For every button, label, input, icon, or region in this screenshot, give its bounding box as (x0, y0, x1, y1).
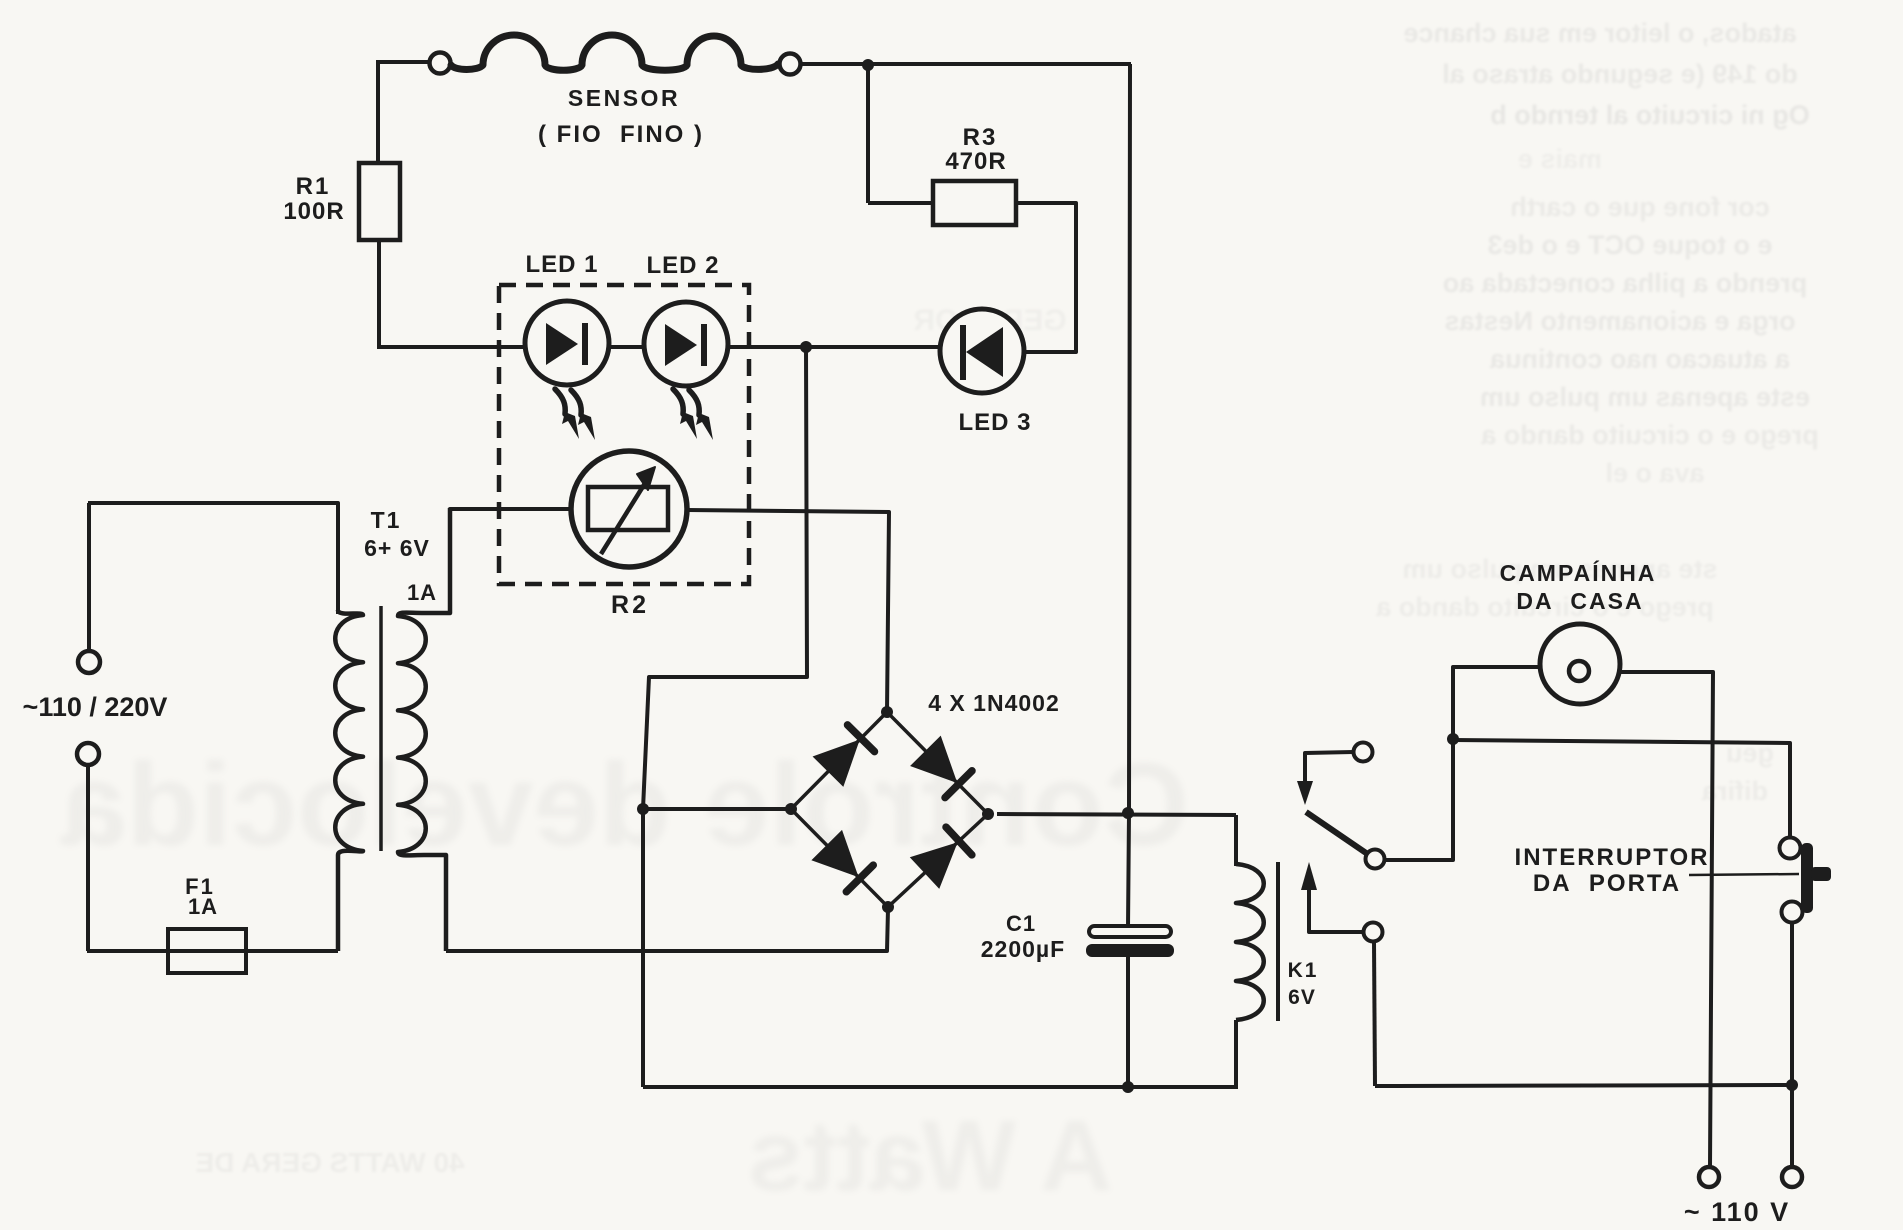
svg-text:LED 2: LED 2 (646, 252, 719, 279)
wire: left vertical down to bottom rail (641, 809, 645, 1087)
bell inner circle (1569, 661, 1589, 681)
T1 secondary winding (398, 508, 450, 951)
mains terminal top (78, 651, 100, 673)
dashed box around LED1 LED2 R2 (499, 285, 749, 584)
capacitor C1 bottom plate (1086, 944, 1174, 957)
svg-text:SENSOR: SENSOR (568, 85, 680, 111)
wire: NC contact lead (1305, 752, 1353, 783)
svg-text:prendo a pilha conectada a: prendo a pilha conectada ao (1443, 268, 1808, 298)
relay coil K1 (1236, 864, 1264, 1020)
relay NO arrow (up) (1301, 862, 1317, 890)
diode D1 (left to top) (814, 741, 858, 785)
node: junction left (637, 803, 649, 815)
relay NC contact circle (1354, 743, 1373, 762)
mains terminal bottom (77, 743, 99, 765)
diode D3 (left to bottom) (813, 832, 857, 876)
door switch bottom circle (1782, 902, 1803, 923)
door switch top circle (1780, 838, 1801, 859)
svg-text:este apenas um pulso um: este apenas um pulso um (1480, 382, 1810, 412)
svg-text:K1: K1 (1288, 959, 1319, 982)
svg-text:R2: R2 (611, 591, 649, 619)
wire: bridge left node horizontal (643, 807, 791, 811)
svg-text:R3: R3 (963, 124, 998, 151)
svg-text:e o toque OCT e o de3: e o toque OCT e o de3 (1487, 230, 1772, 260)
svg-text:1A: 1A (407, 580, 437, 605)
svg-text:Controle develocida: Controle develocida (60, 739, 1189, 871)
node bridge top (+DC) (881, 706, 893, 718)
node: junction dot LED row (800, 341, 812, 353)
wire: primary top (88, 503, 338, 614)
node bridge left (AC) (785, 803, 797, 815)
wire through R2 (571, 507, 588, 511)
T1 primary winding (335, 610, 363, 951)
LED2 emission arrows (673, 389, 713, 440)
diode D4 (bottom to right) (912, 844, 956, 887)
wire: R2 left lead (424, 509, 571, 613)
relay core bar (1276, 862, 1280, 1021)
diode D2 (top to right) (912, 737, 956, 781)
node: C1 top junction (1122, 807, 1134, 819)
svg-text:T1: T1 (371, 507, 402, 533)
long vertical wire right (top wire down to C1) (1128, 64, 1130, 928)
svg-text:DA CASA: DA CASA (1516, 588, 1643, 614)
svg-text:DA PORTA: DA PORTA (1533, 870, 1681, 897)
node bridge bottom (-DC) (882, 901, 894, 913)
wire: bottom rail (left part) (643, 1085, 1236, 1089)
svg-text:CAMPAÍNHA: CAMPAÍNHA (1500, 559, 1657, 586)
wire: NO contact down to bottom rail (1374, 942, 1375, 1086)
wire: top-left lead to sensor (378, 60, 430, 64)
sensor terminal circle left (430, 53, 451, 74)
wire: junction to door switch (1453, 740, 1790, 837)
svg-text:orga e acionamento Nestas: orga e acionamento Nestas (1444, 306, 1795, 336)
svg-text:~110 / 220V: ~110 / 220V (23, 692, 168, 722)
node: top wire junction (862, 59, 874, 71)
door switch button bar (1801, 843, 1813, 913)
R2 rectangle (588, 487, 668, 530)
resistor R3 body (933, 181, 1016, 225)
wire bridge edge bottom-right (888, 814, 988, 907)
resistor R1 vertical leads (376, 60, 380, 163)
wire: down to 110V terminal (1790, 1085, 1794, 1167)
svg-text:Og ni circuito al terndo: Og ni circuito al terndo b (1490, 100, 1810, 130)
terminal circle 110V left (1699, 1167, 1719, 1187)
node: bottom right junction (1786, 1079, 1798, 1091)
wire: primary bottom through fuse (87, 949, 338, 953)
resistor R1 body (359, 163, 400, 240)
svg-text:LED 3: LED 3 (958, 409, 1031, 436)
wire: bridge right node to relay (997, 814, 1236, 815)
relay armature blade (1306, 812, 1369, 855)
wire bridge edge top-right (887, 712, 988, 814)
LED2 (644, 302, 728, 386)
wire: bottom rail (right part) (1375, 1085, 1792, 1086)
relay NO contact circle (1364, 923, 1383, 942)
node bridge right (AC) (982, 808, 994, 820)
svg-text:atados, o leitor em sua cha: atados, o leitor em sua chance (1403, 18, 1796, 48)
node: C1 bottom junction (1122, 1081, 1134, 1093)
wire: bell right lead down (1620, 672, 1713, 1167)
svg-text:a atuacao nao continua: a atuacao nao continua (1489, 344, 1790, 374)
svg-text:6V: 6V (1288, 986, 1316, 1009)
svg-text:100R: 100R (283, 198, 344, 225)
svg-text:ava o el: ava o el (1605, 458, 1704, 488)
svg-text:cor fone que o carth: cor fone que o carth (1510, 192, 1770, 222)
wire bridge edge left-bottom (791, 809, 888, 907)
svg-text:do 149 (e segundo atraso: do 149 (e segundo atraso al (1442, 59, 1798, 89)
sensor coil (fio fino) (451, 35, 778, 70)
wire: switch bottom to rail (1790, 922, 1794, 1085)
svg-text:prego e o circuito dando: prego e o circuito dando a (1480, 420, 1819, 450)
svg-text:1A: 1A (188, 894, 218, 919)
svg-text:INTERRUPTOR: INTERRUPTOR (1515, 844, 1710, 871)
T1 core bar (379, 606, 383, 851)
sensor terminal circle right (780, 54, 801, 75)
pointer line to switch (1689, 874, 1799, 875)
wire: common contact to junction (1385, 667, 1539, 860)
svg-text:( FIO FINO ): ( FIO FINO ) (538, 121, 704, 148)
NC arrow head (down) (1297, 781, 1313, 805)
wire: LED row horizontal (379, 345, 941, 349)
door switch button stem (1811, 867, 1831, 881)
svg-text:C1: C1 (1006, 911, 1036, 936)
wire bridge edge left-top (791, 712, 887, 809)
svg-text:R1: R1 (296, 173, 331, 200)
svg-text:40 WATTS GERA DE: 40 WATTS GERA DE (195, 1147, 464, 1178)
wire: R3 left lead (868, 201, 933, 205)
svg-text:~ 110 V: ~ 110 V (1684, 1197, 1790, 1227)
capacitor C1 top plate (1089, 926, 1171, 937)
svg-text:6+ 6V: 6+ 6V (364, 535, 430, 561)
wire: sensor to top-right corner (800, 62, 1131, 66)
bell campainha circle (1540, 624, 1620, 704)
svg-text:mais e: mais e (1518, 144, 1602, 174)
svg-text:4 X 1N4002: 4 X 1N4002 (928, 690, 1059, 716)
LED3 (940, 309, 1024, 393)
wire: R3 right lead down to LED3 (1016, 203, 1076, 352)
wire: R3 left vertical from top wire (866, 64, 870, 203)
fuse F1 body (168, 929, 246, 973)
terminal circle 110V right (1782, 1167, 1802, 1187)
relay common contact circle (1366, 850, 1385, 869)
wire: relay coil bottom (1234, 1020, 1238, 1089)
LED1 emission arrows (555, 389, 595, 440)
wire: R2 right lead to bridge top (687, 510, 889, 712)
svg-text:A Watts: A Watts (748, 1100, 1113, 1212)
LED1 (525, 301, 609, 385)
wire: C1 bottom lead (1126, 957, 1130, 1087)
svg-text:470R: 470R (945, 148, 1006, 175)
wire: secondary bottom to bridge bottom (446, 909, 888, 951)
R2 circle (571, 451, 687, 567)
svg-text:LED 1: LED 1 (525, 251, 598, 278)
svg-text:2200µF: 2200µF (981, 936, 1065, 962)
node: relay common junction (1447, 733, 1459, 745)
R2 diagonal arrow (601, 480, 647, 554)
wire: relay coil feed (1234, 815, 1238, 866)
wire: from LED-row dot down and to bridge left node (643, 347, 807, 809)
